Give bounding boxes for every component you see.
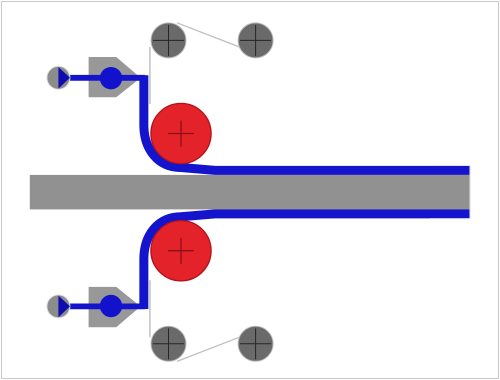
bracket upper (film holder pentagon) bbox=[88, 56, 142, 98]
lamination roller lower (red) bbox=[151, 221, 211, 281]
film roll lower (blue) bbox=[100, 295, 122, 317]
take-up roller bottom-right (gray) bbox=[238, 326, 273, 361]
foil strip upper (vertical peel line) bbox=[149, 47, 151, 104]
panel edge highlight top bbox=[430, 164, 470, 166]
panel (substrate bar) bbox=[29, 174, 470, 210]
panel edge highlight bottom bbox=[430, 218, 470, 220]
film roll upper (blue) bbox=[100, 67, 122, 89]
reel upper (small circle) bbox=[47, 66, 70, 89]
reel wedge upper (blue triangle) bbox=[58, 67, 70, 89]
bracket lower (film holder pentagon) bbox=[88, 286, 142, 328]
reel lower (small circle) bbox=[47, 295, 70, 318]
film path lower (vertical + corner + stripe on panel bottom) bbox=[144, 214, 470, 309]
cross take-up bottom-right bbox=[240, 328, 271, 359]
cross roller lower bbox=[168, 238, 194, 264]
take-up roller top-left (gray) bbox=[151, 23, 186, 58]
foil strip lower (vertical peel line) bbox=[149, 280, 151, 337]
cross take-up bottom-left bbox=[153, 328, 184, 359]
cross roller upper bbox=[168, 121, 194, 147]
film path upper (vertical + corner + stripe on panel top) bbox=[144, 75, 470, 170]
panel edge highlight right bbox=[469, 166, 471, 219]
cross take-up top-right bbox=[240, 25, 271, 56]
film supply line lower bbox=[70, 303, 146, 309]
reel wedge lower (blue triangle) bbox=[58, 296, 70, 318]
foil web line upper (take-up diagonal) bbox=[177, 23, 240, 47]
take-up roller bottom-left (gray) bbox=[151, 326, 186, 361]
cross take-up top-left bbox=[153, 25, 184, 56]
film supply line upper bbox=[70, 75, 146, 81]
foil web line lower (take-up diagonal) bbox=[177, 337, 240, 361]
take-up roller top-right (gray) bbox=[238, 23, 273, 58]
lamination roller upper (red) bbox=[151, 103, 211, 163]
